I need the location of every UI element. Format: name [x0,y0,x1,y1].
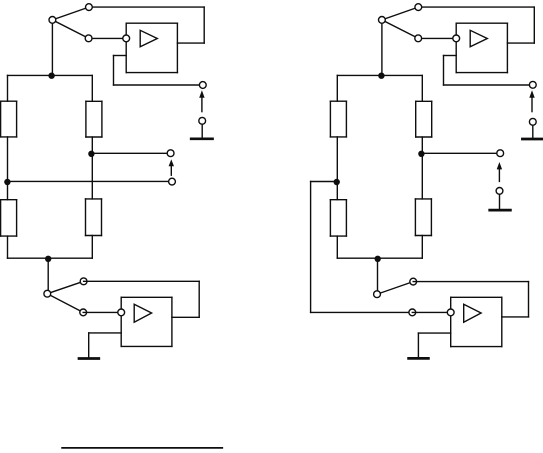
op-amp U2 [118,297,172,346]
wire R5 to node F [336,137,338,182]
wire top bus right [337,75,422,101]
wire R2 to R4 [91,137,93,199]
wire S4 throw1 feedback from U4 output [413,282,528,317]
node G [375,256,381,262]
voltage arrow V3 [497,162,502,181]
switch S4 [374,278,417,316]
resistor R3 [1,200,17,236]
terminal V2+ [167,150,174,157]
wire V1- to ground [201,124,203,138]
wire R6 to R8 [421,137,423,199]
resistor R4 [86,199,102,236]
terminal V1- [199,117,206,124]
wire node C to S2 pole [47,258,49,293]
node D [88,151,94,157]
wire U3 output feedback to S3 throw1 [418,7,534,43]
wire node B to R3 [7,182,9,200]
wire V3- to ground [499,194,501,209]
resistor R1 [1,101,17,137]
resistor R2 [86,101,102,137]
terminal V4- [529,118,536,125]
footnote rule [62,447,222,449]
terminal V3+ [497,150,504,157]
wire U4 lower input to ground [418,333,450,358]
terminal V3- [496,188,503,195]
wire U1 output feedback to S1 throw1 [89,7,204,43]
op-amp U4 [447,297,501,346]
wire top bus [8,75,93,101]
wire S1 pole to node A [51,20,53,76]
wire S4 throw2 to U4 input [412,311,450,313]
wire bottom bus [8,236,93,259]
wire node B to terminal V2- [7,180,172,182]
wire U1 lower input to terminal V1+ [114,56,203,86]
node H [418,151,424,157]
switch S3 [379,4,422,42]
voltage arrow V1 [199,90,204,111]
wire S3 pole to node E [381,20,383,76]
voltage arrow V2 [169,159,174,175]
resistor R8 [415,199,431,236]
wire S2 throw1 feedback from U2 output [84,281,200,317]
op-amp U3 [453,23,508,72]
ground GND5 [409,357,429,360]
wire node D to terminal V2+ [92,152,170,154]
op-amp U1 [123,23,178,72]
ground GND2 [79,357,99,360]
wire U2 lower input to ground [89,333,122,358]
wire S3 throw2 to U3 input [418,37,456,39]
node A [48,73,54,79]
wire V4- to ground [532,125,534,138]
wire bottom bus right [337,236,422,259]
wire S2 throw2 to U2 input [83,311,121,313]
terminal V2- [169,178,176,185]
wire node F to S4 throw2 [311,182,413,313]
terminal V1+ [199,82,206,89]
node F [334,179,340,185]
node E [378,73,384,79]
wire U3 lower input to terminal V4+ [444,56,533,86]
resistor R6 [416,101,432,137]
resistor R5 [330,101,346,137]
voltage arrow V4 [529,90,534,111]
node C [45,256,51,262]
terminal V4+ [529,81,536,88]
switch S2 [44,278,87,316]
wire S1 throw2 to U1 input [89,37,127,39]
ground GND1 [191,137,212,140]
wire R1 to node B [7,137,9,182]
ground GND3 [490,209,511,212]
switch S1 [49,4,92,42]
node B [4,179,10,185]
resistor R7 [330,200,346,236]
wire node H to terminal V3+ [422,152,500,154]
ground GND4 [522,138,543,141]
wire node F to R7 [336,182,338,200]
wire node G to S4 pole [377,258,379,294]
